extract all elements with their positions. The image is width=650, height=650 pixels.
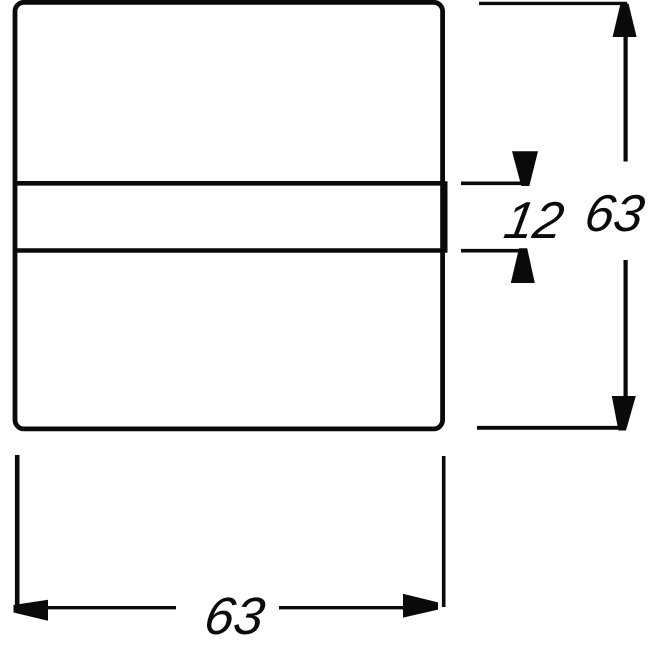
- rocker strip right edge: [443, 181, 447, 253]
- dimension line 63 right lower segment: [623, 260, 627, 397]
- svg-text:12: 12: [500, 192, 568, 250]
- dimension line 63 bottom right segment: [279, 606, 404, 609]
- extension line lower (12 dim): [461, 249, 526, 253]
- arrow up (63 right top): [613, 4, 637, 38]
- extension line right (63 bottom dim): [442, 456, 446, 607]
- extension line upper (12 dim): [461, 182, 524, 186]
- extension line bottom (63 right dim): [477, 426, 626, 430]
- extension line top (63 right dim): [479, 2, 627, 5]
- arrow left (63 bottom): [14, 600, 49, 621]
- arrow down (12 dim upper): [512, 151, 538, 186]
- rocker strip top line: [13, 181, 445, 186]
- extension line left (63 bottom dim): [15, 455, 20, 612]
- dimension line 63 right upper segment: [623, 34, 627, 162]
- arrow right (63 bottom): [403, 594, 438, 618]
- dimension line 63 bottom left segment: [46, 606, 176, 609]
- arrow up (12 dim lower): [511, 248, 535, 283]
- rocker strip bottom line: [13, 248, 445, 253]
- arrow down (63 right bottom): [612, 396, 636, 431]
- plate outline (63x63 rounded square): [15, 2, 443, 429]
- svg-text:63: 63: [200, 587, 269, 646]
- svg-text:63: 63: [580, 185, 648, 243]
